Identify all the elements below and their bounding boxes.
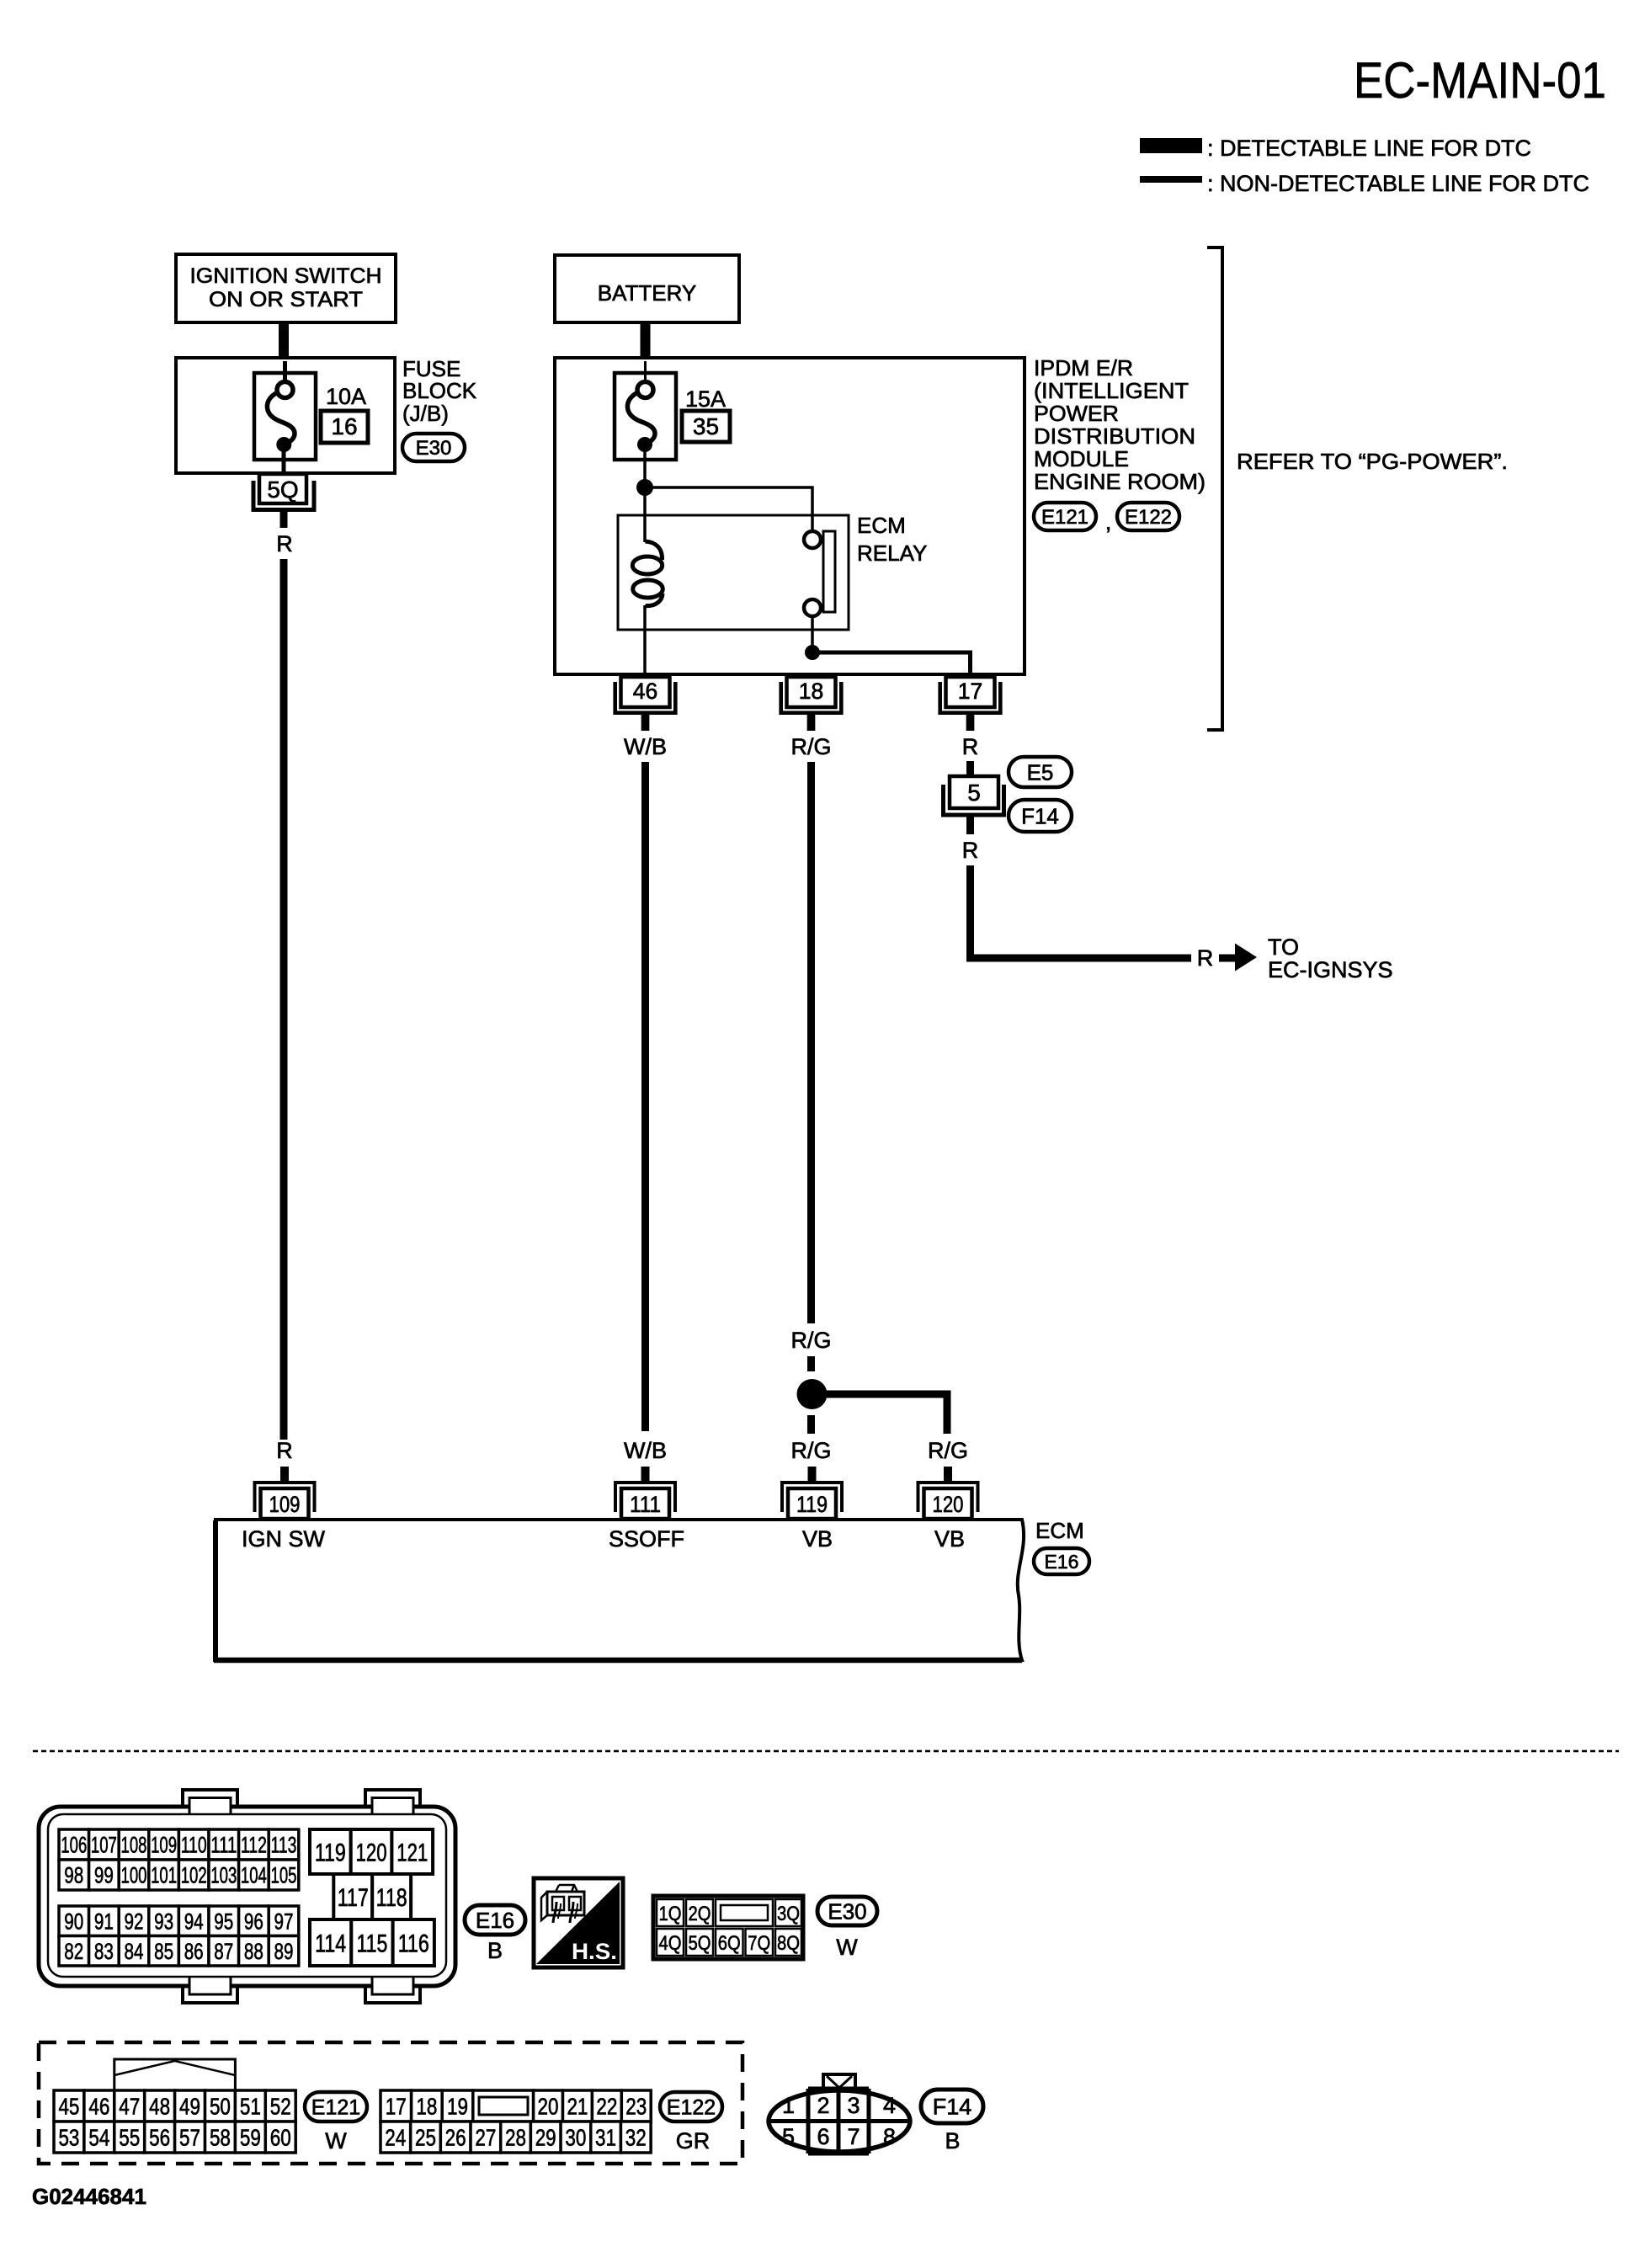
svg-text:ON OR START: ON OR START — [209, 288, 363, 311]
svg-text:6Q: 6Q — [718, 1932, 741, 1955]
svg-text:BATTERY: BATTERY — [598, 280, 697, 306]
svg-text:W: W — [836, 1935, 858, 1960]
svg-text:48: 48 — [149, 2094, 170, 2120]
svg-text:B: B — [487, 1938, 503, 1963]
svg-text:57: 57 — [179, 2125, 200, 2151]
svg-text:86: 86 — [184, 1939, 204, 1964]
svg-text:95: 95 — [214, 1909, 233, 1934]
svg-text:8Q: 8Q — [777, 1932, 800, 1955]
svg-text:49: 49 — [179, 2094, 200, 2120]
svg-text:R: R — [962, 838, 979, 863]
svg-text:53: 53 — [58, 2125, 79, 2151]
svg-text:120: 120 — [933, 1492, 964, 1517]
svg-text:ECM: ECM — [857, 513, 906, 538]
svg-text:104: 104 — [241, 1863, 267, 1888]
svg-text:103: 103 — [210, 1863, 237, 1888]
svg-text:4Q: 4Q — [659, 1932, 682, 1955]
svg-text:VB: VB — [934, 1526, 965, 1552]
svg-text:10A: 10A — [326, 384, 366, 409]
svg-text:H.S.: H.S. — [572, 1939, 617, 1964]
svg-text:E30: E30 — [416, 437, 452, 460]
svg-text:F14: F14 — [933, 2095, 972, 2120]
svg-text:90: 90 — [64, 1909, 83, 1934]
svg-text:E121: E121 — [311, 2096, 360, 2120]
svg-text:3: 3 — [847, 2093, 860, 2118]
svg-text:W/B: W/B — [624, 1438, 667, 1463]
svg-text:E122: E122 — [1125, 506, 1172, 529]
svg-text:ECM: ECM — [1035, 1518, 1084, 1543]
svg-text:B: B — [945, 2128, 960, 2154]
svg-text:EC-IGNSYS: EC-IGNSYS — [1268, 957, 1393, 982]
svg-text:,: , — [1105, 509, 1111, 535]
svg-text:MODULE: MODULE — [1034, 446, 1129, 471]
svg-text:20: 20 — [538, 2094, 559, 2120]
svg-text:108: 108 — [121, 1833, 147, 1858]
svg-text:2Q: 2Q — [689, 1903, 711, 1925]
svg-text:: DETECTABLE LINE FOR DTC: : DETECTABLE LINE FOR DTC — [1207, 136, 1531, 161]
svg-text:87: 87 — [214, 1939, 233, 1964]
svg-text:54: 54 — [88, 2125, 109, 2151]
svg-text:25: 25 — [415, 2125, 436, 2151]
svg-text:110: 110 — [181, 1833, 207, 1858]
svg-text:E30: E30 — [828, 1898, 866, 1924]
svg-text:E121: E121 — [1041, 506, 1088, 529]
svg-text:117: 117 — [338, 1884, 369, 1912]
svg-text:58: 58 — [210, 2125, 231, 2151]
svg-text:: NON-DETECTABLE LINE FOR DTC: : NON-DETECTABLE LINE FOR DTC — [1207, 171, 1589, 196]
svg-text:32: 32 — [625, 2125, 647, 2151]
svg-text:112: 112 — [241, 1833, 267, 1858]
svg-text:15A: 15A — [685, 386, 726, 412]
svg-text:22: 22 — [596, 2094, 617, 2120]
svg-text:60: 60 — [270, 2125, 291, 2151]
svg-text:21: 21 — [567, 2094, 588, 2120]
svg-text:SSOFF: SSOFF — [609, 1526, 684, 1552]
svg-text:IGN SW: IGN SW — [242, 1526, 326, 1552]
svg-text:85: 85 — [154, 1939, 173, 1964]
svg-text:119: 119 — [315, 1839, 346, 1866]
svg-text:45: 45 — [58, 2094, 79, 2120]
svg-text:R: R — [276, 1438, 293, 1463]
svg-text:55: 55 — [119, 2125, 140, 2151]
svg-text:1: 1 — [782, 2093, 795, 2118]
svg-text:16: 16 — [331, 413, 357, 439]
svg-text:109: 109 — [151, 1833, 177, 1858]
svg-text:R/G: R/G — [790, 734, 831, 759]
svg-text:IGNITION SWITCH: IGNITION SWITCH — [190, 264, 382, 288]
svg-text:35: 35 — [693, 413, 719, 439]
svg-text:R: R — [1197, 945, 1214, 971]
svg-text:1Q: 1Q — [659, 1903, 682, 1925]
svg-text:ENGINE ROOM): ENGINE ROOM) — [1034, 469, 1206, 494]
svg-text:W: W — [325, 2128, 347, 2154]
svg-text:105: 105 — [271, 1863, 297, 1888]
svg-text:111: 111 — [630, 1492, 661, 1517]
svg-text:26: 26 — [445, 2125, 466, 2151]
svg-text:7: 7 — [847, 2124, 860, 2149]
svg-text:30: 30 — [565, 2125, 586, 2151]
svg-text:120: 120 — [356, 1839, 387, 1866]
svg-text:24: 24 — [385, 2125, 406, 2151]
svg-text:96: 96 — [244, 1909, 263, 1934]
svg-text:E122: E122 — [667, 2096, 716, 2120]
svg-text:115: 115 — [356, 1930, 387, 1957]
svg-text:59: 59 — [240, 2125, 261, 2151]
svg-text:IPDM E/R: IPDM E/R — [1034, 355, 1133, 381]
svg-text:TO: TO — [1268, 934, 1299, 960]
svg-text:6: 6 — [817, 2124, 829, 2149]
svg-text:19: 19 — [447, 2094, 468, 2120]
svg-text:83: 83 — [94, 1939, 114, 1964]
svg-text:2: 2 — [817, 2093, 829, 2118]
svg-text:102: 102 — [181, 1863, 207, 1888]
svg-text:(INTELLIGENT: (INTELLIGENT — [1034, 378, 1189, 403]
svg-text:113: 113 — [271, 1833, 297, 1858]
svg-text:51: 51 — [240, 2094, 261, 2120]
svg-text:E16: E16 — [476, 1908, 514, 1933]
svg-text:RELAY: RELAY — [857, 540, 927, 566]
svg-text:118: 118 — [376, 1884, 407, 1912]
svg-text:89: 89 — [274, 1939, 294, 1964]
svg-text:W/B: W/B — [624, 734, 667, 759]
svg-text:R: R — [276, 531, 293, 556]
svg-text:93: 93 — [154, 1909, 173, 1934]
svg-text:109: 109 — [269, 1492, 301, 1517]
svg-text:7Q: 7Q — [748, 1932, 770, 1955]
svg-text:8: 8 — [883, 2124, 896, 2149]
svg-text:101: 101 — [151, 1863, 177, 1888]
svg-text:99: 99 — [94, 1863, 114, 1888]
svg-text:107: 107 — [91, 1833, 117, 1858]
svg-text:5: 5 — [967, 780, 981, 806]
svg-text:5Q: 5Q — [267, 476, 298, 503]
svg-text:G02446841: G02446841 — [32, 2184, 146, 2209]
svg-text:18: 18 — [416, 2094, 437, 2120]
svg-text:5Q: 5Q — [689, 1932, 711, 1955]
svg-text:18: 18 — [799, 679, 823, 704]
svg-text:31: 31 — [595, 2125, 616, 2151]
svg-text:23: 23 — [625, 2094, 647, 2120]
svg-text:EC-MAIN-01: EC-MAIN-01 — [1354, 52, 1606, 109]
svg-text:116: 116 — [398, 1930, 429, 1957]
svg-text:29: 29 — [535, 2125, 556, 2151]
svg-text:97: 97 — [274, 1909, 294, 1934]
svg-text:17: 17 — [386, 2094, 407, 2120]
svg-text:17: 17 — [958, 679, 982, 704]
svg-text:REFER TO “PG-POWER”.: REFER TO “PG-POWER”. — [1237, 449, 1508, 474]
svg-text:DISTRIBUTION: DISTRIBUTION — [1034, 423, 1195, 449]
svg-text:3Q: 3Q — [777, 1903, 800, 1925]
svg-text:114: 114 — [315, 1930, 346, 1957]
svg-text:47: 47 — [119, 2094, 140, 2120]
svg-text:BLOCK: BLOCK — [402, 378, 477, 403]
svg-text:111: 111 — [210, 1833, 237, 1858]
svg-text:R: R — [962, 734, 979, 759]
svg-text:GR: GR — [676, 2128, 711, 2154]
svg-text:5: 5 — [782, 2124, 795, 2149]
svg-text:98: 98 — [64, 1863, 83, 1888]
svg-text:119: 119 — [796, 1492, 828, 1517]
svg-text:46: 46 — [88, 2094, 109, 2120]
svg-text:56: 56 — [149, 2125, 170, 2151]
svg-text:R/G: R/G — [790, 1438, 831, 1463]
svg-text:91: 91 — [94, 1909, 114, 1934]
svg-text:82: 82 — [64, 1939, 83, 1964]
svg-text:121: 121 — [397, 1839, 428, 1866]
svg-text:4: 4 — [883, 2093, 896, 2118]
svg-text:F14: F14 — [1021, 803, 1059, 828]
svg-text:92: 92 — [125, 1909, 144, 1934]
svg-text:100: 100 — [121, 1863, 147, 1888]
svg-text:27: 27 — [475, 2125, 496, 2151]
svg-text:88: 88 — [244, 1939, 263, 1964]
svg-text:50: 50 — [210, 2094, 231, 2120]
svg-text:POWER: POWER — [1034, 401, 1119, 426]
svg-text:VB: VB — [802, 1526, 833, 1552]
svg-text:28: 28 — [505, 2125, 526, 2151]
svg-text:E5: E5 — [1027, 759, 1054, 785]
svg-text:(J/B): (J/B) — [402, 401, 449, 426]
svg-text:E16: E16 — [1045, 1551, 1079, 1573]
svg-text:84: 84 — [125, 1939, 144, 1964]
svg-text:R/G: R/G — [928, 1438, 968, 1463]
svg-text:52: 52 — [270, 2094, 291, 2120]
svg-text:94: 94 — [184, 1909, 204, 1934]
svg-text:46: 46 — [633, 679, 657, 704]
svg-text:R/G: R/G — [790, 1328, 831, 1353]
svg-text:106: 106 — [61, 1833, 87, 1858]
